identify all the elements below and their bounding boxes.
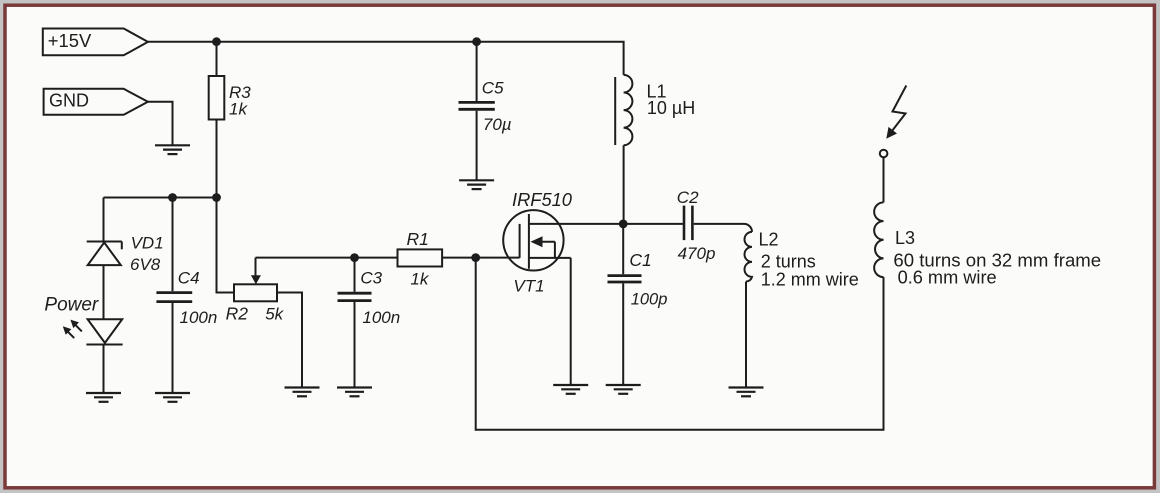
wire +15V rail bbox=[148, 42, 624, 75]
resistor R1 bbox=[398, 249, 443, 266]
wire R3 bottom to R2 bbox=[217, 198, 235, 293]
junction node/R3 bbox=[212, 193, 221, 202]
wire drain row bbox=[529, 223, 683, 225]
svg-text:100n: 100n bbox=[362, 308, 400, 327]
junction gate/feedback bbox=[471, 253, 480, 262]
ground (L2) bbox=[729, 388, 764, 397]
svg-text:Power: Power bbox=[44, 295, 99, 316]
svg-text:VD1: VD1 bbox=[131, 234, 164, 253]
lightning arrow (antenna) bbox=[886, 86, 906, 139]
wire source to ground bbox=[570, 258, 572, 385]
svg-text:R1: R1 bbox=[407, 229, 429, 249]
svg-text:70µ: 70µ bbox=[483, 115, 512, 134]
svg-text:IRF510: IRF510 bbox=[512, 189, 573, 210]
antenna terminal circle bbox=[880, 150, 888, 158]
inductor L1 bbox=[615, 75, 632, 145]
zener diode VD1 bbox=[87, 198, 122, 320]
capacitor C2 bbox=[684, 206, 692, 241]
junction node/C4 bbox=[168, 193, 177, 202]
wire feedback loop to L3 bbox=[476, 258, 884, 430]
ground (C4) bbox=[155, 393, 190, 402]
svg-text:0.6 mm wire: 0.6 mm wire bbox=[898, 267, 997, 287]
svg-text:L2: L2 bbox=[759, 230, 779, 250]
capacitor C5 bbox=[459, 42, 495, 181]
power flag GND bbox=[44, 89, 148, 115]
svg-text:5k: 5k bbox=[265, 305, 284, 324]
wire L1 to drain node bbox=[623, 145, 625, 224]
inductor L3 bbox=[874, 202, 883, 277]
ground (C1) bbox=[606, 385, 641, 394]
svg-text:100p: 100p bbox=[631, 291, 668, 309]
ground (GND flag) bbox=[155, 145, 190, 154]
junction wiper/C3 bbox=[350, 253, 359, 262]
wire wiper to R1 bbox=[256, 257, 398, 259]
wire R2 right to ground bbox=[277, 293, 302, 388]
junction +15V/R3 bbox=[212, 37, 221, 46]
svg-text:470p: 470p bbox=[678, 244, 716, 263]
svg-text:C5: C5 bbox=[482, 78, 504, 97]
ground (VT1 source) bbox=[553, 385, 588, 394]
potentiometer R2 bbox=[234, 258, 277, 302]
capacitor C1 bbox=[608, 224, 642, 385]
svg-text:C4: C4 bbox=[178, 269, 200, 288]
MOSFET VT1 IRF510 bbox=[503, 210, 571, 270]
svg-text:1k: 1k bbox=[410, 269, 429, 288]
wire C2 to L2 bbox=[694, 224, 752, 232]
svg-text:C1: C1 bbox=[629, 250, 651, 270]
LED (Power indicator) bbox=[63, 319, 123, 393]
svg-text:R2: R2 bbox=[226, 304, 249, 324]
svg-text:1.2 mm wire: 1.2 mm wire bbox=[761, 270, 859, 290]
svg-text:6V8: 6V8 bbox=[130, 255, 161, 274]
wire R1 to gate bbox=[443, 257, 520, 259]
svg-text:L3: L3 bbox=[895, 228, 915, 248]
svg-text:VT1: VT1 bbox=[513, 276, 544, 295]
svg-text:C2: C2 bbox=[677, 188, 699, 207]
power flag +15V bbox=[43, 29, 148, 56]
ground (LED) bbox=[86, 393, 121, 402]
ground (C5) bbox=[459, 180, 494, 189]
junction +15V/C5 bbox=[472, 37, 481, 46]
ground (R2) bbox=[285, 388, 320, 397]
capacitor C3 bbox=[338, 258, 372, 388]
svg-text:+15V: +15V bbox=[48, 30, 92, 51]
wire L2 to ground bbox=[745, 282, 747, 388]
svg-text:100n: 100n bbox=[180, 308, 218, 327]
svg-text:10 µH: 10 µH bbox=[647, 98, 695, 118]
svg-text:2 turns: 2 turns bbox=[761, 252, 816, 272]
ground (C3) bbox=[337, 388, 372, 397]
junction drain node bbox=[619, 220, 628, 229]
resistor R3 bbox=[209, 42, 225, 198]
svg-text:GND: GND bbox=[49, 90, 89, 110]
capacitor C4 bbox=[156, 198, 192, 394]
wire node row y=197.5 bbox=[104, 197, 217, 199]
inductor L2 bbox=[745, 232, 753, 282]
svg-text:C3: C3 bbox=[360, 269, 382, 288]
svg-text:1k: 1k bbox=[229, 100, 248, 119]
wire GND flag to ground bbox=[148, 102, 173, 146]
wire terminal to L3 bbox=[883, 157, 885, 202]
